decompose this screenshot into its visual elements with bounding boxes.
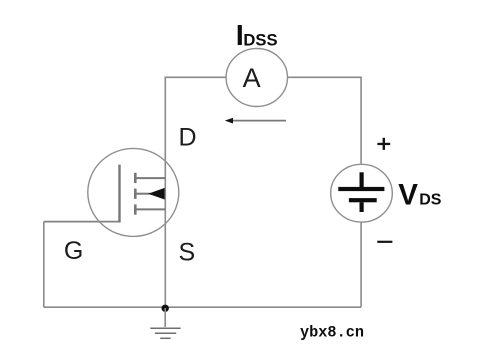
source V1 circle (331, 164, 393, 222)
transistor Q1 body channel tick (134, 189, 137, 199)
ground bar 1 (150, 327, 180, 329)
wire gate lead horizontal (44, 221, 121, 223)
source V1 battery long plate (338, 187, 384, 191)
plus sign (377, 143, 390, 145)
transistor Q1 body arrow (148, 188, 164, 200)
svg-text:A: A (243, 63, 261, 93)
ground bar 2 (155, 332, 176, 334)
wire gate branch vertical (43, 222, 45, 308)
svg-text:V: V (398, 179, 418, 212)
wire top-left segment (drain to ammeter) (165, 76, 227, 78)
ground stem (164, 308, 166, 327)
minus sign (377, 241, 392, 243)
transistor Q1 source stub (137, 208, 166, 210)
wire top-right segment (ammeter to source branch) (287, 76, 361, 78)
svg-text:DSS: DSS (243, 30, 277, 49)
wire right vertical lower (from V- terminal) (360, 222, 362, 307)
wire bottom horizontal (44, 306, 361, 308)
wire left vertical (D-S channel wire) (164, 77, 166, 308)
wire right vertical upper (to V+ terminal) (360, 77, 362, 164)
svg-text:G: G (64, 237, 83, 265)
transistor Q1 drain stub (137, 177, 166, 179)
transistor Q1 body stub (137, 193, 151, 195)
transistor Q1 envelope circle (88, 148, 179, 236)
svg-text:DS: DS (419, 192, 442, 209)
transistor Q1 drain channel tick (134, 173, 137, 183)
svg-text:S: S (179, 238, 196, 266)
svg-text:ybx8.cn: ybx8.cn (300, 324, 364, 342)
source V1 battery short plate (349, 198, 377, 202)
node junction dot (162, 305, 169, 312)
ground bar 3 (160, 337, 171, 339)
transistor Q1 source channel tick (134, 204, 137, 214)
current arrow line (231, 120, 286, 122)
source V1 battery bottom lead (360, 202, 364, 212)
ammeter U1 circle (226, 49, 287, 107)
source V1 battery top lead (360, 172, 364, 187)
svg-text:D: D (179, 123, 197, 151)
transistor Q1 gate bar (118, 165, 120, 223)
current arrow head (225, 118, 233, 124)
